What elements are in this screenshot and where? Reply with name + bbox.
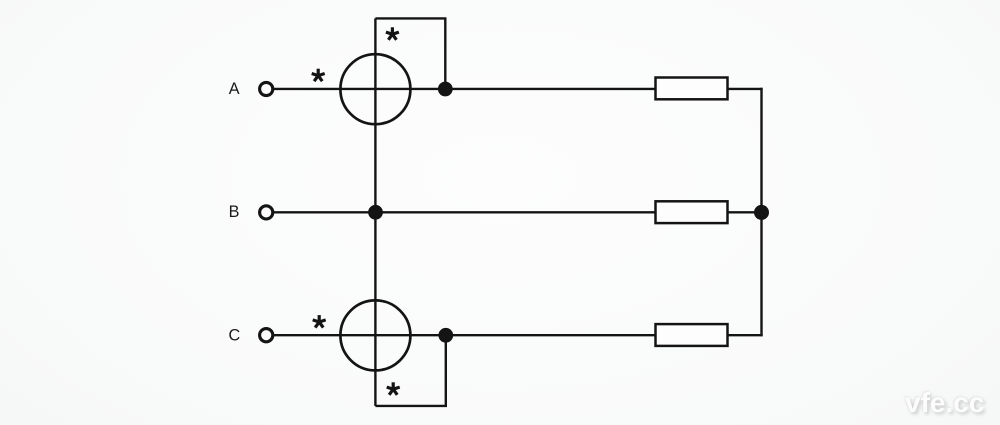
junction dot B (368, 205, 383, 220)
wire phase A horizontal (273, 88, 656, 90)
wire vertical potential bus (374, 18, 376, 406)
polarity mark asterisk W2 current (313, 315, 326, 328)
wire phase B resistor to right bus (727, 211, 763, 213)
terminal B (260, 206, 273, 219)
polarity mark asterisk W1 voltage (386, 27, 399, 39)
wire phase C resistor to right bus (727, 334, 763, 336)
wattmeter W2 current coil circle (340, 300, 410, 370)
resistor load C (656, 324, 728, 346)
terminal A (260, 82, 273, 95)
wire wattmeter W2 voltage loop bottom (375, 335, 445, 406)
terminal C (260, 329, 273, 342)
polarity mark asterisk W2 voltage (387, 382, 400, 395)
wire right vertical load bus (760, 88, 762, 336)
watermark vfe.cc (905, 387, 1000, 419)
resistor load A (656, 78, 728, 100)
svg-text:C: C (229, 327, 241, 345)
wire phase B horizontal (273, 211, 656, 213)
wire phase C horizontal (273, 334, 658, 336)
junction dot A (438, 82, 453, 97)
polarity mark asterisk W1 current (312, 69, 325, 82)
svg-text:B: B (229, 203, 240, 221)
junction dot load neutral (754, 205, 769, 220)
junction dot C (438, 328, 453, 343)
wire phase A resistor to right bus (727, 88, 763, 90)
wattmeter W1 current coil circle (340, 54, 410, 124)
resistor load B (656, 201, 728, 223)
svg-text:A: A (229, 80, 240, 98)
wire wattmeter W1 voltage loop top (375, 18, 445, 89)
